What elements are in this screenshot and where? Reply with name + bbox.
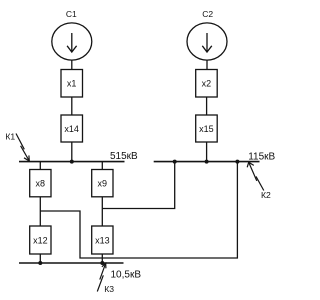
wire C1 to x1 xyxy=(71,60,73,70)
svg-text:x15: x15 xyxy=(199,124,214,134)
bus 115kV xyxy=(154,161,260,163)
wire x8 to x12 xyxy=(39,197,41,226)
fault arrow K1 xyxy=(16,134,29,162)
svg-text:C2: C2 xyxy=(202,9,213,19)
svg-text:515кВ: 515кВ xyxy=(110,151,138,162)
svg-text:115кВ: 115кВ xyxy=(248,152,275,163)
node dot bus10.5 x12 xyxy=(38,261,42,265)
bus 10.5kV xyxy=(19,262,124,264)
svg-text:x2: x2 xyxy=(202,79,212,89)
wire x14 to bus 515 xyxy=(71,142,73,162)
reactor x8 xyxy=(30,170,51,197)
svg-text:x9: x9 xyxy=(98,178,108,188)
svg-text:К3: К3 xyxy=(104,284,114,294)
reactor x15 xyxy=(196,115,218,142)
wire x1 to x14 xyxy=(71,97,73,115)
svg-text:x14: x14 xyxy=(64,124,79,134)
wire bus515 to x9 xyxy=(101,162,103,170)
fault arrow K3 xyxy=(97,263,106,291)
node dot bus115 left xyxy=(173,160,177,164)
wire x2 to x15 xyxy=(206,97,208,115)
wire x8-x12 midpoint tap xyxy=(40,162,237,259)
svg-text:C1: C1 xyxy=(66,9,77,19)
bus 515kV xyxy=(19,161,125,163)
wire x12 to bus 10.5 xyxy=(39,254,41,263)
node dot bus115 x15 xyxy=(205,160,209,164)
reactor x13 xyxy=(92,226,113,254)
svg-text:К2: К2 xyxy=(261,190,271,200)
reactor x12 xyxy=(30,226,51,254)
svg-text:x1: x1 xyxy=(67,79,77,89)
svg-text:10,5кВ: 10,5кВ xyxy=(111,270,142,281)
node dot bus10.5 x13 xyxy=(100,261,104,265)
generator C2 xyxy=(187,23,227,60)
reactor x14 xyxy=(61,115,83,142)
wire x9-x13 midpoint tap xyxy=(102,162,174,209)
wire x13 to bus 10.5 xyxy=(101,254,103,263)
reactor x1 xyxy=(61,70,83,98)
reactor x9 xyxy=(92,170,113,197)
generator C1 xyxy=(52,23,92,60)
wire bus515 to x8 xyxy=(39,162,41,170)
svg-text:x12: x12 xyxy=(33,235,48,245)
svg-text:x8: x8 xyxy=(36,178,46,188)
wire x15 to bus 115 xyxy=(206,142,208,162)
wire C2 to x2 xyxy=(206,60,208,70)
fault arrow K2 xyxy=(247,162,264,190)
reactor x2 xyxy=(196,70,218,98)
node dot bus515 x14 xyxy=(70,160,74,164)
svg-text:x13: x13 xyxy=(95,235,110,245)
wire x9 to x13 xyxy=(101,197,103,226)
svg-text:К1: К1 xyxy=(5,131,15,141)
node dot bus115 right xyxy=(235,160,239,164)
